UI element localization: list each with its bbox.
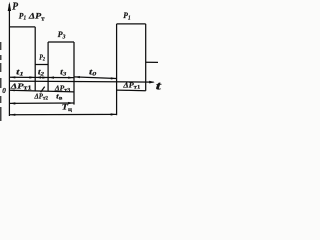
- svg-text:0: 0: [2, 86, 6, 95]
